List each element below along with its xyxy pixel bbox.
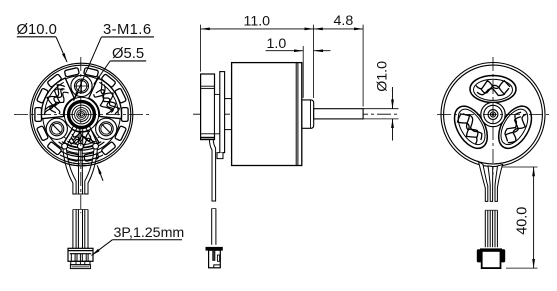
lead wire left white body bbox=[63, 149, 76, 195]
wire exit hole right bbox=[93, 143, 99, 149]
mounting plate bbox=[220, 72, 225, 153]
plate shoulder top bbox=[225, 98, 232, 100]
motor lead wire (side) bbox=[210, 140, 216, 201]
wire hole pointer arrow bbox=[97, 165, 103, 181]
svg-text:3-M1.6: 3-M1.6 bbox=[103, 22, 151, 38]
rear lead wire fan left bbox=[479, 162, 488, 202]
housing arcs over wires bbox=[62, 162, 100, 166]
rear lead wire fan middle bbox=[488, 166, 493, 201]
rear winding squiggle b bbox=[502, 110, 524, 141]
winding squiggle a bbox=[44, 85, 65, 114]
rear connector left latch bbox=[477, 249, 482, 262]
winding squiggle a bbox=[69, 138, 95, 146]
rear vertical centerline bbox=[492, 57, 494, 175]
rear connector body bbox=[482, 251, 501, 268]
shaft bbox=[314, 109, 363, 119]
window inner rim arc bbox=[45, 82, 64, 115]
screw hole M1.6 #1 bbox=[71, 75, 92, 96]
lead wire middle white body bbox=[78, 149, 82, 194]
shaft boss bbox=[302, 100, 314, 128]
rear connector right latch bbox=[500, 249, 505, 262]
rear winding squiggle b bbox=[477, 88, 509, 95]
window inner rim arc bbox=[67, 141, 95, 145]
rotor magnet pad bbox=[47, 141, 62, 155]
dimension 40.0 bbox=[502, 166, 538, 168]
rotor magnet pad bbox=[47, 74, 62, 88]
plate shoulder bottom bbox=[225, 129, 232, 131]
rear winding squiggle b bbox=[462, 110, 484, 141]
wire exit hole left bbox=[62, 143, 68, 149]
front view outer housing circle bbox=[30, 63, 133, 166]
back cover block bbox=[201, 74, 215, 140]
rear winding squiggle c bbox=[481, 85, 505, 94]
rear winding squiggle c bbox=[462, 114, 482, 139]
rear window rim arc bbox=[495, 105, 533, 149]
body cap seam lines bbox=[295, 63, 297, 166]
rear wire bundle lower bbox=[485, 210, 497, 247]
pad band arcs bottom bbox=[60, 151, 102, 157]
rotor band inner edge bbox=[43, 76, 121, 154]
rotor magnet pad bbox=[101, 141, 116, 155]
internal phase wire right bbox=[86, 128, 94, 145]
rear outer circle bbox=[441, 63, 545, 167]
motor body side view bbox=[232, 63, 302, 166]
rotor magnet pad bbox=[64, 152, 79, 162]
leader 3-M1.6 bbox=[74, 37, 102, 101]
rear winding squiggle a bbox=[476, 81, 510, 89]
leader dia5.5 bbox=[94, 61, 110, 84]
rear winding squiggle a bbox=[507, 113, 531, 146]
connector side view bbox=[206, 247, 223, 250]
winding squiggle c bbox=[96, 90, 113, 113]
winding squiggle b bbox=[94, 94, 112, 114]
winding window 3 bbox=[64, 129, 99, 147]
svg-text:3P,1.25mm: 3P,1.25mm bbox=[114, 225, 185, 241]
winding squiggle b bbox=[54, 92, 69, 114]
winding squiggle a bbox=[101, 82, 119, 114]
front horizontal centerline bbox=[14, 114, 149, 116]
winding window 2 bbox=[41, 78, 74, 119]
rear window rim arc bbox=[453, 105, 491, 149]
rear inner circle bbox=[444, 65, 543, 164]
rear connector housing top bar bbox=[480, 248, 502, 251]
svg-text:Ø1.0: Ø1.0 bbox=[375, 61, 391, 92]
svg-text:40.0: 40.0 bbox=[515, 207, 531, 235]
rear winding window 1 bbox=[470, 76, 516, 103]
rear winding window 2 bbox=[448, 101, 494, 154]
rear winding squiggle a bbox=[455, 113, 479, 147]
winding squiggle d bbox=[45, 89, 63, 110]
rear horizontal centerline bbox=[437, 114, 549, 116]
plate foot notch bbox=[217, 153, 223, 159]
wire hole boss band bbox=[59, 142, 105, 150]
rear winding squiggle c bbox=[505, 115, 524, 140]
winding squiggle b bbox=[72, 132, 90, 138]
svg-text:11.0: 11.0 bbox=[244, 14, 271, 30]
wire exit hole middle bbox=[78, 143, 84, 149]
stator core circle bbox=[64, 97, 98, 131]
svg-text:Ø5.5: Ø5.5 bbox=[112, 46, 144, 62]
leader dia10.0 bbox=[56, 37, 67, 62]
rotor magnet pad bbox=[84, 152, 99, 162]
rear window rim arc bbox=[474, 79, 513, 100]
side view horizontal centerline bbox=[193, 113, 397, 115]
winding squiggle d bbox=[103, 85, 115, 111]
svg-text:Ø10.0: Ø10.0 bbox=[17, 22, 57, 38]
hub between cover and plate bbox=[215, 94, 220, 133]
screw hole M1.6 #2 bbox=[46, 118, 67, 139]
winding window 1 bbox=[89, 78, 122, 119]
rotor magnet pad bbox=[122, 108, 129, 122]
front view inner housing circle bbox=[32, 65, 131, 164]
rotor magnet pad bbox=[37, 88, 49, 103]
wire bundle lower segment (front) bbox=[73, 194, 88, 248]
rotor magnet pad bbox=[37, 126, 49, 141]
svg-text:1.0: 1.0 bbox=[267, 36, 287, 52]
rotor magnet pad bbox=[115, 126, 127, 141]
rotor magnet pad bbox=[101, 74, 116, 88]
connector 3P front view bbox=[68, 248, 93, 268]
rotor magnet pad bbox=[115, 88, 127, 103]
leader 3P connector bbox=[92, 240, 113, 256]
front vertical centerline bbox=[80, 57, 82, 213]
bolt circle dia5.5 centerline bbox=[53, 86, 110, 143]
wire lower segment (side) bbox=[211, 209, 213, 245]
window inner rim arc bbox=[99, 82, 118, 115]
winding squiggle c bbox=[50, 89, 65, 113]
dimension dia1.0 shaft bbox=[375, 61, 391, 92]
rotor magnet pad bbox=[84, 68, 99, 77]
winding squiggle d bbox=[72, 136, 92, 143]
rotor magnet pad bbox=[64, 68, 79, 78]
center hub bearing bbox=[68, 101, 96, 129]
lead wire right white body bbox=[85, 149, 98, 195]
rear hub rings bbox=[481, 102, 505, 126]
rear lead wire fan right bbox=[495, 165, 503, 202]
internal phase wire left bbox=[64, 126, 74, 144]
rear winding window 3 bbox=[492, 101, 538, 154]
winding squiggle c bbox=[72, 136, 91, 141]
screw hole M1.6 #3 bbox=[96, 118, 117, 139]
svg-text:4.8: 4.8 bbox=[334, 13, 354, 29]
internal phase wire middle bbox=[78, 129, 81, 145]
rotor magnet pad bbox=[35, 108, 42, 122]
